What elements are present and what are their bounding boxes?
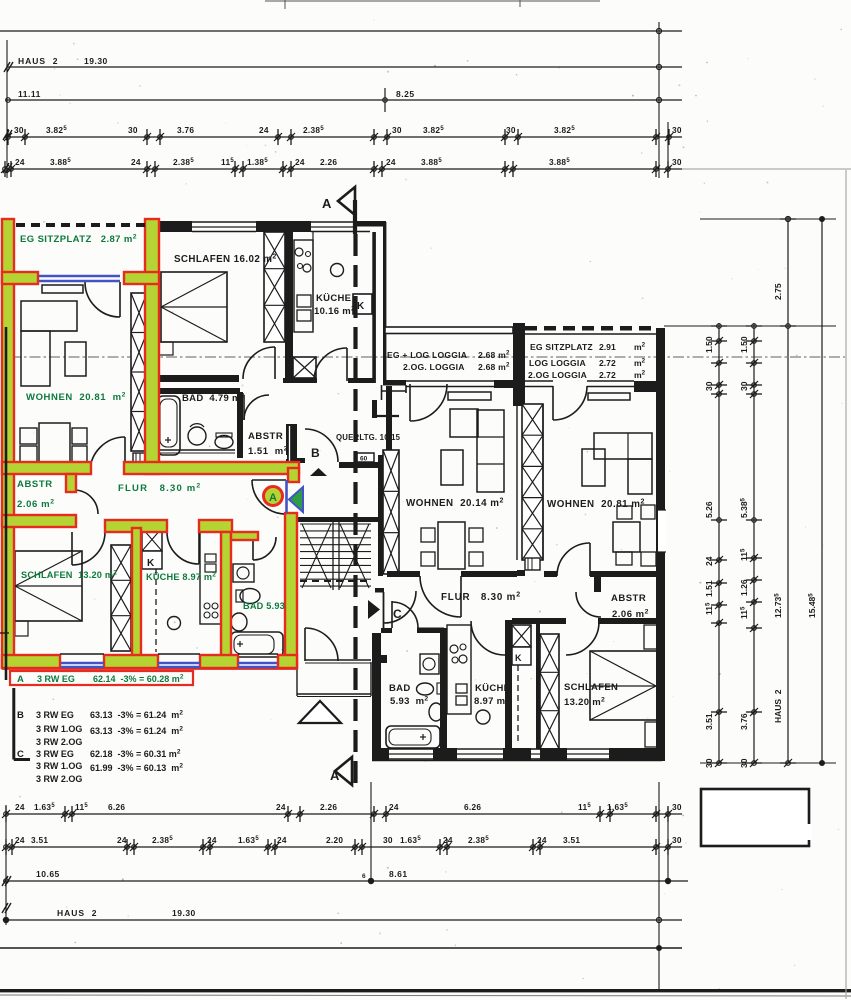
right dim line V1 (718, 323, 720, 763)
svg-text:24: 24 (295, 157, 305, 167)
shaft hatch between wohnen rooms (522, 404, 543, 560)
dining table wohnen-20.14 (438, 522, 465, 569)
door arc building entry (305, 628, 338, 661)
svg-text:HAUS 2: HAUS 2 (57, 908, 98, 918)
svg-text:EG SITZPLATZ: EG SITZPLATZ (530, 342, 593, 352)
exterior wall bottom right wing (381, 748, 389, 760)
svg-text:30: 30 (383, 835, 393, 845)
dimension line HAUS 2 19.30 top (7, 66, 682, 68)
dimension line 10.65 / 8.61 (5, 880, 688, 882)
svg-text:60: 60 (360, 456, 368, 463)
svg-text:3 RW 2.OG: 3 RW 2.OG (36, 774, 82, 784)
svg-text:19.30: 19.30 (84, 56, 108, 66)
svg-text:30: 30 (392, 125, 402, 135)
door arc wohnen-2081 loggia (553, 386, 587, 420)
svg-text:5.93 m2: 5.93 m2 (390, 696, 428, 708)
svg-text:A: A (269, 492, 277, 504)
svg-text:LOG LOGGIA: LOG LOGGIA (529, 358, 586, 368)
svg-text:11.11: 11.11 (18, 89, 41, 99)
svg-text:24: 24 (386, 157, 396, 167)
right dim line V3 (787, 217, 789, 763)
shaft box small below closet (133, 453, 146, 462)
loggia divider wall (513, 323, 525, 382)
dimension line HAUS 2 19.30 bottom (5, 919, 682, 921)
horizontal section/axis dashed line (10, 356, 845, 358)
dimension chain top row2 (5, 168, 682, 170)
left datum vertical top (6, 40, 8, 178)
svg-text:ABSTR: ABSTR (248, 431, 283, 442)
shaft hatch schlafen-A closet (111, 545, 131, 651)
right dim connector top (700, 218, 836, 220)
bed schlafen-B (161, 272, 227, 342)
bed schlafen-C (590, 651, 658, 720)
svg-text:30: 30 (704, 381, 714, 391)
svg-text:2.72: 2.72 (599, 358, 616, 368)
bottom outer line (0, 947, 682, 949)
svg-text:WOHNEN 20.14 m2: WOHNEN 20.14 m2 (406, 498, 504, 510)
shaft hatch schlafen-B (264, 232, 285, 342)
svg-text:6.26: 6.26 (108, 802, 125, 812)
svg-text:61.99 -3% = 60.13 m2: 61.99 -3% = 60.13 m2 (90, 763, 183, 774)
staircase treads (297, 517, 381, 522)
door arc wohnen-A terrace (85, 282, 120, 317)
window blue sitzplatz A (39, 275, 120, 278)
door arc entry A (252, 480, 286, 514)
shaft hatch wohnen-B closet (131, 293, 147, 451)
svg-text:SCHLAFEN 16.02 m2: SCHLAFEN 16.02 m2 (174, 254, 277, 266)
scan bottom edge band (0, 989, 851, 992)
svg-text:1.51 m2: 1.51 m2 (248, 446, 288, 458)
walls abstr-C (594, 576, 601, 592)
top edge partial scan line (265, 0, 600, 2)
dimension line top outer (0, 30, 682, 32)
svg-text:3.51: 3.51 (31, 835, 48, 845)
chimney K kueche-B (353, 294, 372, 314)
shaft hatch kueche-C K (512, 625, 531, 647)
svg-text:WOHNEN 20.81 m2: WOHNEN 20.81 m2 (26, 392, 126, 404)
svg-text:2.OG LOGGIA: 2.OG LOGGIA (528, 370, 587, 380)
sofa group wohnen-20.14 (448, 392, 491, 400)
walls bad-B / abstr-B (159, 375, 239, 382)
svg-text:2.26: 2.26 (320, 802, 337, 812)
svg-text:BAD: BAD (389, 683, 410, 694)
svg-text:B: B (17, 710, 24, 721)
vestibule walls (305, 659, 371, 661)
vertical section line A-A body (353, 234, 357, 788)
svg-text:WOHNEN 20.81 m2: WOHNEN 20.81 m2 (547, 499, 645, 511)
svg-text:B: B (311, 446, 320, 460)
svg-text:C: C (17, 749, 24, 760)
door arc wohnen-2014 flur (420, 576, 461, 617)
windows blue A south (61, 662, 104, 664)
svg-text:A: A (330, 768, 340, 783)
svg-text:KÜCHE: KÜCHE (316, 293, 351, 304)
walls bad-C kueche-C (381, 628, 392, 633)
dimension chain bottom row2 (5, 846, 682, 848)
door arc wohnen-2014 loggia (410, 384, 447, 421)
svg-text:2.91: 2.91 (599, 342, 616, 352)
svg-text:HAUS 2: HAUS 2 (18, 56, 59, 66)
svg-text:6.26: 6.26 (464, 802, 481, 812)
svg-text:24: 24 (537, 835, 547, 845)
svg-text:62.18 -3% = 60.31 m2: 62.18 -3% = 60.31 m2 (90, 749, 181, 760)
svg-text:2.06 m2: 2.06 m2 (17, 499, 55, 511)
svg-text:30: 30 (14, 125, 24, 135)
svg-text:30: 30 (672, 157, 682, 167)
exterior wall top with windows (159, 221, 192, 232)
svg-text:19.30: 19.30 (172, 908, 196, 918)
svg-text:63.13 -3% = 61.24 m2: 63.13 -3% = 61.24 m2 (90, 726, 183, 737)
marker triangle B (310, 468, 327, 476)
marker circle A entrance (264, 487, 283, 506)
svg-text:2.75: 2.75 (773, 283, 783, 300)
left datum vertical bottom (5, 805, 7, 925)
svg-text:8.97 m2: 8.97 m2 (474, 696, 510, 708)
svg-text:10.16 m2: 10.16 m2 (314, 306, 355, 318)
svg-text:30: 30 (739, 381, 749, 391)
door arc bad-A (253, 537, 276, 560)
svg-text:30: 30 (672, 125, 682, 135)
kitchen counter kueche-A (200, 531, 221, 624)
svg-text:BAD 4.79 m2: BAD 4.79 m2 (182, 393, 245, 405)
svg-text:3.51: 3.51 (563, 835, 580, 845)
bed schlafen-A (15, 551, 82, 621)
svg-text:24: 24 (443, 835, 453, 845)
svg-text:24: 24 (277, 835, 287, 845)
right dim line V4 (821, 217, 823, 763)
black datum line west of A (5, 327, 8, 680)
svg-text:10.65: 10.65 (36, 869, 60, 879)
svg-text:SCHLAFEN: SCHLAFEN (564, 682, 618, 693)
svg-text:2.68 m2: 2.68 m2 (478, 350, 510, 361)
shaft box below wohnen hatch (525, 558, 540, 570)
svg-text:K: K (147, 558, 155, 569)
shaft hatch stairwell west (383, 450, 399, 574)
wall kueche-B south + counterline (283, 378, 317, 383)
door arc flur-C stairs (384, 591, 416, 623)
svg-text:1.26: 1.26 (739, 579, 749, 596)
section marker A top (338, 187, 355, 215)
dimension chain bottom row1 (5, 813, 682, 815)
dining table wohnen-A (39, 423, 70, 465)
entry door A blue line (285, 480, 288, 513)
right grid verticals top (658, 22, 660, 178)
door arc kueche-B (314, 348, 347, 381)
svg-text:8.61: 8.61 (389, 869, 408, 879)
svg-text:24: 24 (276, 802, 286, 812)
svg-text:30: 30 (506, 125, 516, 135)
svg-text:ABSTR: ABSTR (17, 479, 53, 490)
bath fixtures bad-A (233, 564, 254, 582)
svg-text:3.76: 3.76 (177, 125, 194, 135)
svg-text:ABSTR: ABSTR (611, 593, 646, 604)
svg-text:FLUR 8.30 m2: FLUR 8.30 m2 (441, 592, 521, 604)
wall KUECHE-B east (372, 232, 376, 383)
door arc kueche-C (471, 621, 505, 655)
svg-text:63.13 -3% = 61.24 m2: 63.13 -3% = 61.24 m2 (90, 710, 183, 721)
svg-text:C: C (393, 607, 402, 621)
walls wohnen south / flur-C north (387, 571, 420, 577)
door arc abstr-C (576, 592, 601, 617)
right dim connector bottom (700, 762, 836, 764)
flue dashed kueche-A (155, 569, 157, 652)
svg-text:HAUS 2: HAUS 2 (773, 689, 783, 723)
flue dashed kueche-C (517, 665, 519, 745)
entrance canopy triangle (299, 701, 341, 723)
svg-text:13.20 m2: 13.20 m2 (564, 697, 605, 709)
svg-text:3 RW EG: 3 RW EG (36, 710, 74, 720)
svg-text:5.26: 5.26 (704, 501, 714, 518)
svg-text:30: 30 (672, 802, 682, 812)
svg-text:1.51: 1.51 (704, 580, 714, 597)
grid vertical x659 bottom (658, 782, 660, 991)
svg-text:3 RW 1.OG: 3 RW 1.OG (36, 724, 82, 734)
svg-text:30: 30 (672, 835, 682, 845)
loggia/wohnen separating walls (383, 380, 406, 386)
grid vertical x371 bottom (370, 782, 372, 884)
door arc kueche-A (167, 532, 199, 564)
svg-text:EG + LOG LOGGIA: EG + LOG LOGGIA (387, 350, 467, 360)
box 60 stair (357, 453, 374, 462)
svg-text:24: 24 (131, 157, 141, 167)
svg-text:62.14 -3% = 60.28 m2: 62.14 -3% = 60.28 m2 (93, 674, 184, 685)
svg-text:24: 24 (117, 835, 127, 845)
svg-text:8.25: 8.25 (396, 89, 415, 99)
scan noise speckles (275, 151, 277, 153)
kitchen counter kueche-B (294, 240, 313, 332)
svg-text:24: 24 (259, 125, 269, 135)
bath fixtures bad-B (157, 396, 180, 455)
svg-text:2.72: 2.72 (599, 370, 616, 380)
svg-text:A: A (322, 196, 332, 211)
svg-text:30: 30 (128, 125, 138, 135)
dining table wohnen-20.81 (613, 522, 640, 552)
svg-text:2.06 m2: 2.06 m2 (612, 609, 649, 621)
sitzplatz A dashed parapet (16, 223, 25, 227)
svg-text:24: 24 (15, 157, 25, 167)
dimension line 11.11 / 8.25 (7, 99, 682, 101)
svg-text:2.26: 2.26 (320, 157, 337, 167)
loggia C dashed parapet top (525, 326, 537, 331)
exterior wall east (656, 328, 665, 761)
svg-text:2.20: 2.20 (326, 835, 343, 845)
door arc abstr-A (74, 490, 98, 514)
svg-text:SCHLAFEN 13.20 m2: SCHLAFEN 13.20 m2 (21, 570, 117, 581)
door arc schlafen-B (243, 347, 275, 379)
right scan edge line (845, 170, 847, 999)
svg-text:3 RW 1.OG: 3 RW 1.OG (36, 761, 82, 771)
svg-text:24: 24 (704, 556, 714, 566)
svg-text:3.51: 3.51 (704, 713, 714, 730)
sofa group wohnen-20.81 (588, 393, 630, 400)
svg-text:1.50: 1.50 (739, 336, 749, 353)
marker triangle C (stairs) (368, 600, 380, 619)
area row A (red box) (10, 671, 193, 685)
door arc wohnen-2081 flur (557, 543, 590, 576)
sofa group wohnen-A (42, 285, 83, 293)
door arc schlafen-C (566, 622, 599, 655)
right dim line V2 (753, 323, 755, 763)
svg-text:3 RW 2.OG: 3 RW 2.OG (36, 737, 82, 747)
svg-text:EG SITZPLATZ 2.87 m2: EG SITZPLATZ 2.87 m2 (20, 234, 137, 246)
walls flanking wohnen hatch (517, 386, 525, 404)
door arc schlafen-A (72, 532, 105, 565)
vertical section line A-A head (353, 200, 357, 234)
svg-text:A: A (17, 674, 24, 685)
marker green triangle entrance (289, 487, 303, 512)
apartment A highlighted walls (yellow/red) (2, 219, 14, 668)
chimney K box kueche-C (512, 647, 531, 665)
svg-text:FLUR 8.30 m2: FLUR 8.30 m2 (118, 483, 201, 495)
svg-text:3 RW EG: 3 RW EG (37, 674, 75, 684)
svg-text:24: 24 (389, 802, 399, 812)
dimension chain top row1 (5, 136, 682, 138)
door arc entry B (305, 429, 338, 462)
chimney K kueche-A (142, 528, 162, 551)
svg-text:3.76: 3.76 (739, 713, 749, 730)
svg-text:24: 24 (15, 835, 25, 845)
lintel lines A south windows (60, 653, 104, 655)
shaft hatch schlafen-C closet (540, 634, 559, 749)
svg-text:K: K (515, 653, 522, 663)
svg-text:24: 24 (15, 802, 25, 812)
door arc wohnen-A flur (90, 437, 125, 472)
right wing top wall (loggia B) (385, 327, 513, 334)
bath fixtures bad-C (420, 654, 439, 674)
svg-text:24: 24 (207, 835, 217, 845)
empty legend box bottom right (701, 789, 809, 846)
svg-text:1.50: 1.50 (704, 336, 714, 353)
kitchen counter kueche-C (447, 625, 471, 714)
svg-text:QUERLTG. 10/15: QUERLTG. 10/15 (336, 433, 401, 442)
svg-text:K: K (357, 301, 365, 312)
svg-text:6: 6 (362, 873, 366, 880)
svg-text:2.OG. LOGGIA: 2.OG. LOGGIA (403, 362, 465, 372)
shaft hatch kueche-B small (293, 357, 316, 378)
svg-text:KÜCHE: KÜCHE (475, 683, 510, 694)
svg-text:2.68 m2: 2.68 m2 (478, 362, 510, 373)
door arc bad-B (244, 395, 269, 420)
right dim connector mid (664, 325, 836, 327)
svg-text:BAD 5.93: BAD 5.93 (243, 601, 285, 611)
svg-text:KÜCHE 8.97 m2: KÜCHE 8.97 m2 (146, 572, 216, 583)
stairwell east walls (378, 455, 383, 576)
svg-text:3 RW EG: 3 RW EG (36, 749, 74, 759)
section marker A bottom (335, 757, 352, 785)
